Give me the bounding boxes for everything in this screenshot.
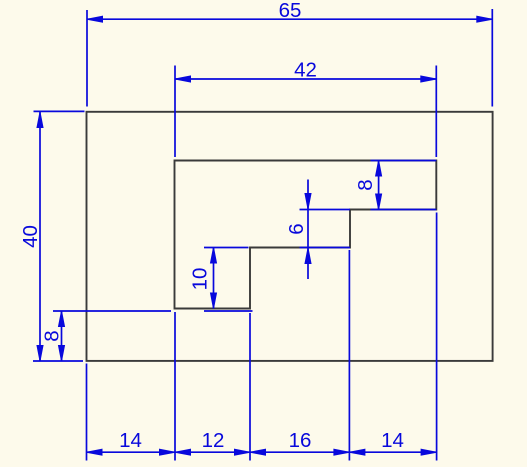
dimension 65: right arrowhead [477, 16, 493, 22]
dimension 65: dimension line [87, 18, 492, 20]
dimension 6: bottom extension line overlaying step edge [300, 247, 351, 249]
dimension 42: right arrowhead [421, 76, 437, 82]
svg-text:16: 16 [289, 429, 312, 452]
bottom dimensions: extension line at x=175 [174, 312, 176, 461]
bottom dimension 14 left: value label [119, 429, 142, 452]
bottom dimension 16: left arrowhead [250, 449, 266, 455]
dimension 40: value label [19, 225, 42, 248]
dimension 42: left extension line [174, 66, 176, 158]
svg-text:65: 65 [279, 0, 302, 22]
dimension 8 (right): bottom extension line overlaying step edge [371, 209, 437, 211]
svg-text:14: 14 [381, 429, 404, 452]
dimension 40: bottom extension line [33, 360, 83, 362]
bottom dimension 12: left arrowhead [175, 449, 191, 455]
dimension 8 (left): value label [41, 330, 64, 341]
bottom dimensions: extension line at x=250 [249, 313, 251, 461]
svg-text:12: 12 [202, 429, 225, 452]
bottom dimension 16: value label [289, 429, 312, 452]
dimension 10: dimension line [213, 248, 215, 309]
bottom dimension 14 right: value label [381, 429, 404, 452]
dimension 6: lower arrowhead pointing up [305, 248, 311, 264]
dimension 8 (left): top arrowhead [59, 311, 65, 327]
bottom dimensions: extension line at x=436.6 [436, 213, 438, 461]
outer rectangle of part [87, 112, 493, 361]
dimension 8 (left): top extension line [53, 310, 171, 312]
dimension 10: top extension line [204, 247, 249, 249]
dimension 65: right extension line [491, 9, 493, 107]
bottom dimensions: extension line at x=349.4 [348, 250, 350, 461]
svg-text:40: 40 [19, 225, 42, 248]
bottom dimension 14 left: left arrowhead [87, 449, 103, 455]
dimension 10: bottom extension line [204, 310, 253, 312]
dimension 65: value label [279, 0, 302, 22]
dimension 42: value label [294, 59, 317, 82]
dimension 6: dimension line [307, 180, 309, 280]
svg-text:8: 8 [354, 179, 377, 190]
dimension 6: upper arrowhead pointing down [305, 194, 311, 210]
dimension 6: value label [285, 223, 308, 234]
dimension 42: dimension line [175, 78, 436, 80]
svg-text:14: 14 [119, 429, 142, 452]
dimension 8 (right): top arrowhead [376, 161, 382, 177]
dimension 8 (right): bottom arrowhead [376, 194, 382, 210]
dimension 42: left arrowhead [175, 76, 191, 82]
dimension 8 (right): value label [354, 179, 377, 190]
bottom dimension 14 left: right arrowhead [160, 449, 176, 455]
dimension 40: dimension line [39, 112, 41, 361]
dimension 8 (left): bottom arrowhead [59, 346, 65, 362]
dimension 10: top arrowhead [211, 248, 217, 264]
dimension 8 (left): dimension line [61, 311, 63, 361]
dimension 40: top arrowhead [37, 112, 43, 128]
bottom dimension 12: right arrowhead [235, 449, 251, 455]
bottom dimensions: extension line at x=86.5 [86, 364, 88, 461]
bottom dimension 16: right arrowhead [334, 449, 350, 455]
svg-text:8: 8 [41, 330, 64, 341]
dimension 40: top extension line [34, 110, 85, 112]
dimension 10: value label [189, 268, 212, 291]
bottom dimension 12: value label [202, 429, 225, 452]
inner stepped profile of part [175, 161, 437, 309]
dimension 8 (right): top extension line overlaying step edge [371, 160, 437, 162]
bottom dimensions: dimension line [87, 451, 437, 453]
dimension 65: left extension line [86, 10, 88, 107]
dimension 6: top extension line [300, 209, 351, 211]
dimension 65: left arrowhead [87, 16, 103, 22]
bottom dimension 14 right: right arrowhead [421, 449, 437, 455]
svg-text:6: 6 [285, 223, 308, 234]
bottom dimension 14 right: left arrowhead [349, 449, 365, 455]
svg-text:10: 10 [189, 268, 212, 291]
dimension 10: bottom arrowhead [211, 293, 217, 309]
svg-text:42: 42 [294, 59, 317, 82]
dimension 8 (right): dimension line [378, 161, 380, 210]
dimension 40: bottom arrowhead [37, 346, 43, 362]
dimension 42: right extension line [435, 66, 437, 158]
